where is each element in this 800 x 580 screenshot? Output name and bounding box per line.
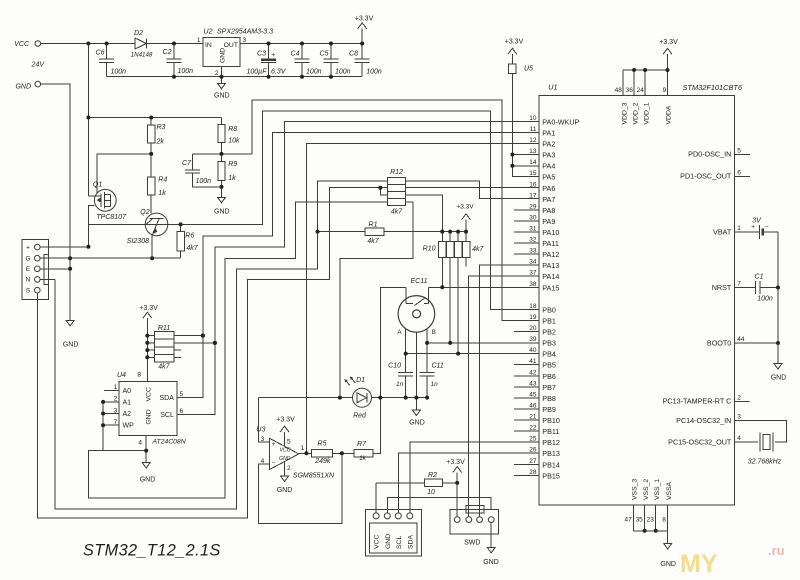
svg-text:AT24C08N: AT24C08N: [152, 438, 186, 445]
wire net PB1 bridge to R8/R9 divider: [252, 100, 539, 320]
svg-text:GND: GND: [279, 456, 291, 462]
svg-text:SPX2954AM3-3.3: SPX2954AM3-3.3: [217, 29, 273, 36]
svg-text:R3: R3: [157, 124, 166, 131]
svg-text:NRST: NRST: [712, 283, 732, 292]
svg-text:6: 6: [180, 408, 184, 415]
svg-text:PB1: PB1: [542, 317, 556, 326]
svg-text:U2: U2: [204, 29, 213, 36]
svg-text:PB11: PB11: [542, 427, 559, 436]
wire encoder common to GND: [415, 332, 417, 410]
+3.3V symbol R2: [456, 472, 458, 483]
svg-text:PA4: PA4: [542, 162, 555, 171]
svg-text:PB15: PB15: [542, 471, 560, 480]
svg-text:10: 10: [427, 489, 435, 496]
svg-text:N: N: [26, 277, 31, 284]
svg-text:VSS_2: VSS_2: [643, 479, 650, 500]
svg-text:PA2: PA2: [542, 140, 555, 149]
svg-text:19: 19: [529, 314, 537, 321]
svg-text:100n: 100n: [306, 68, 322, 75]
svg-text:SDA: SDA: [407, 535, 414, 549]
capacitor C10 1n: [398, 371, 413, 373]
R10 bottom leads: [441, 257, 443, 287]
svg-text:+3.3V: +3.3V: [276, 416, 295, 423]
svg-text:−: −: [272, 459, 276, 466]
svg-text:U4: U4: [117, 372, 126, 379]
R11 right leads: [174, 335, 203, 337]
svg-text:C5: C5: [320, 51, 329, 58]
wire U4 address tie to GND: [103, 402, 146, 451]
ferrite bead U5: [512, 54, 538, 177]
svg-text:4: 4: [138, 439, 142, 446]
svg-text:R10: R10: [423, 246, 436, 253]
resistor R4 1k: [148, 177, 155, 195]
svg-text:PB9: PB9: [542, 405, 556, 414]
svg-text:11: 11: [530, 126, 537, 133]
rotary encoder EC11: [398, 296, 435, 333]
wire R12 row4 right chain: [340, 202, 413, 398]
svg-text:48: 48: [615, 87, 623, 94]
capacitor C3 100uF 6.3V: [268, 44, 270, 59]
svg-text:5: 5: [287, 438, 291, 445]
svg-text:PB8: PB8: [542, 394, 556, 403]
SWD connector: [450, 510, 499, 535]
svg-text:.ru: .ru: [768, 543, 785, 558]
svg-text:38: 38: [529, 281, 537, 288]
svg-text:6.3V: 6.3V: [271, 68, 287, 75]
svg-text:GND: GND: [214, 209, 230, 216]
svg-text:R9: R9: [228, 161, 237, 168]
svg-text:PA10: PA10: [542, 228, 559, 237]
wire net PA7/sense N: pin17 through R12 row1 to handle N: [55, 181, 539, 509]
svg-text:100n: 100n: [757, 296, 773, 303]
encoder switch contacts: [405, 287, 407, 303]
MCU top pins VDD_3 VDD_2 VDD_1 VDDA: [622, 70, 624, 96]
svg-text:R2: R2: [428, 472, 437, 479]
svg-text:PA9: PA9: [542, 217, 555, 226]
wire VSS bus to GND: [634, 530, 668, 532]
wire G/emitter/R6 ground line: [40, 257, 181, 259]
svg-text:100n: 100n: [196, 178, 212, 185]
svg-text:100n: 100n: [178, 68, 194, 75]
svg-text:2: 2: [737, 394, 741, 401]
svg-text:GND: GND: [385, 534, 392, 549]
svg-text:2: 2: [215, 70, 219, 77]
svg-text:VCC: VCC: [146, 387, 153, 401]
svg-text:U3: U3: [256, 424, 265, 433]
svg-text:VSS_1: VSS_1: [654, 479, 661, 500]
wire net SDA: pin11 PA1 to R11/U4 SDA: [177, 133, 539, 398]
svg-text:R1: R1: [369, 222, 378, 229]
connector X1 handle: [22, 240, 49, 300]
svg-text:VDD_2: VDD_2: [632, 102, 639, 124]
svg-text:3: 3: [737, 414, 741, 421]
wire 3.3V output rail: [240, 43, 362, 45]
resistor network R12 4k7: [387, 177, 405, 205]
wire GND rail under caps: [107, 76, 363, 78]
svg-text:EC11: EC11: [411, 278, 428, 285]
SWD GND: [490, 523, 492, 535]
svg-text:47: 47: [624, 517, 632, 524]
svg-text:1k: 1k: [228, 175, 236, 182]
GND symbol handle ground: [66, 321, 74, 327]
svg-text:STM32F101CBT6: STM32F101CBT6: [683, 83, 743, 92]
wire net PB3 encoder B: [427, 342, 539, 344]
U4 address pin stubs: [104, 389, 119, 391]
svg-text:4k7: 4k7: [186, 245, 198, 252]
svg-text:C6: C6: [96, 50, 105, 57]
svg-text:STM32_T12_2.1S: STM32_T12_2.1S: [83, 542, 221, 560]
svg-text:30: 30: [529, 214, 537, 221]
battery BT1 3V: [735, 231, 760, 233]
svg-text:PD1-OSC_OUT: PD1-OSC_OUT: [680, 172, 732, 181]
svg-text:24: 24: [637, 87, 645, 94]
MCU bottom pins VSS_3 VSS_2 VSS_1 VSSA: [633, 505, 635, 531]
svg-text:23: 23: [647, 517, 655, 524]
svg-text:8: 8: [662, 517, 666, 524]
svg-text:GND: GND: [771, 374, 787, 381]
svg-text:39: 39: [529, 336, 537, 343]
svg-text:PA0-WKUP: PA0-WKUP: [542, 117, 579, 126]
svg-text:2k: 2k: [156, 138, 165, 145]
svg-text:B: B: [432, 329, 436, 336]
svg-text:22: 22: [529, 425, 537, 432]
op-amp U3 SGM8551XN: [270, 438, 299, 469]
svg-text:45: 45: [529, 391, 537, 398]
svg-text:A1: A1: [123, 399, 132, 406]
BOOT0 wire and GND: [735, 342, 779, 344]
wire Q1 gate from R3/R4: [97, 154, 151, 193]
pin 5 stub: [735, 153, 751, 155]
svg-text:+3.3V: +3.3V: [456, 204, 474, 211]
svg-text:D2: D2: [134, 30, 143, 37]
svg-text:100µF: 100µF: [247, 68, 268, 75]
svg-text:+: +: [272, 441, 276, 448]
resistor R5 249k: [312, 450, 333, 457]
svg-text:SDA: SDA: [159, 395, 174, 402]
svg-text:MY: MY: [680, 550, 718, 578]
svg-text:4: 4: [737, 435, 741, 442]
+3.3V symbol R10 rail: [465, 220, 467, 232]
svg-text:GND: GND: [220, 48, 227, 63]
+3.3V symbol R11: [146, 318, 148, 382]
diode D2 1N4148: [135, 38, 146, 49]
svg-text:7: 7: [737, 281, 741, 288]
wire switch left to gnd rail: [380, 287, 406, 397]
pin 6 stub: [735, 175, 751, 177]
svg-text:PA3: PA3: [542, 151, 555, 160]
svg-text:10: 10: [529, 115, 537, 122]
wire VDD bus: [623, 69, 667, 71]
capacitor C4 100n: [301, 44, 303, 60]
svg-text:GND: GND: [409, 420, 425, 427]
svg-text:R12: R12: [390, 169, 403, 176]
svg-text:9: 9: [663, 87, 667, 94]
+3.3V symbol top: [361, 29, 363, 44]
U3 pin2 GND: [284, 462, 286, 477]
svg-text:PB2: PB2: [542, 328, 556, 337]
svg-text:SGM8551XN: SGM8551XN: [293, 472, 335, 479]
OLED connector: [365, 509, 421, 556]
junction dots: [86, 116, 90, 120]
svg-text:32.768kHz: 32.768kHz: [748, 459, 782, 466]
resistor R7 1k: [354, 450, 373, 457]
wire + pin to VCC: [40, 246, 88, 248]
wire net SWDIO: pin34 PA13 to SWD: [480, 265, 539, 517]
svg-text:C8: C8: [349, 51, 358, 58]
svg-text:TPC8107: TPC8107: [96, 214, 127, 221]
svg-text:PD0-OSC_IN: PD0-OSC_IN: [688, 150, 731, 159]
svg-text:GND: GND: [277, 487, 293, 494]
pin 2 stub: [735, 400, 750, 402]
svg-text:PB7: PB7: [542, 383, 556, 392]
resistor R1 4k7: [318, 231, 365, 233]
svg-text:Q2: Q2: [140, 209, 149, 216]
wire VCC vertical feed: [87, 44, 89, 197]
svg-text:G: G: [25, 256, 30, 263]
crystal Y1 32.768kHz: [735, 421, 787, 443]
svg-text:PA12: PA12: [542, 250, 559, 259]
svg-text:6: 6: [737, 169, 741, 176]
svg-text:249k: 249k: [314, 458, 331, 465]
svg-text:U1: U1: [548, 82, 557, 91]
svg-text:4k7: 4k7: [472, 246, 484, 253]
wire net PB12 OLED SDA: [410, 442, 539, 513]
svg-text:R7: R7: [357, 441, 367, 448]
resistor R3 2k: [150, 118, 152, 126]
svg-text:1N4148: 1N4148: [131, 52, 153, 59]
svg-text:VCC: VCC: [374, 535, 381, 549]
wire OLED VCC riser: [375, 483, 377, 513]
U3 pin5 VCC: [284, 432, 286, 446]
capacitor C6 100n: [106, 44, 108, 60]
MCU U1 STM32F101CBT6 box: [539, 96, 735, 506]
svg-text:PB6: PB6: [542, 372, 556, 381]
svg-text:GND: GND: [214, 93, 230, 100]
svg-text:4k7: 4k7: [158, 364, 170, 371]
svg-text:SCL: SCL: [396, 536, 403, 549]
svg-text:R4: R4: [158, 176, 167, 183]
svg-text:33: 33: [529, 248, 537, 255]
regulator U2 SPX2954AM3-3.3: [203, 38, 240, 67]
svg-text:PC13-TAMPER-RT C: PC13-TAMPER-RT C: [663, 397, 732, 406]
capacitor C7 100n: [192, 154, 194, 170]
svg-text:GND: GND: [146, 409, 153, 424]
transistor Q1 TPC8107: [94, 189, 116, 211]
svg-text:PA1: PA1: [542, 129, 555, 138]
wire VCC rail: [41, 43, 135, 45]
svg-text:C4: C4: [291, 51, 300, 58]
wire E pin: [40, 268, 70, 270]
svg-text:+: +: [751, 224, 755, 231]
capacitor C8 100n: [361, 44, 363, 60]
svg-text:+3.3V: +3.3V: [355, 16, 374, 23]
svg-text:GND: GND: [63, 342, 79, 349]
svg-text:1: 1: [737, 225, 741, 232]
svg-text:C1: C1: [755, 274, 764, 281]
svg-text:SCL: SCL: [160, 412, 174, 419]
U3 pin3 input: [259, 398, 270, 443]
wire encoder A with C10: [405, 329, 407, 373]
svg-text:4k7: 4k7: [391, 208, 403, 215]
svg-text:24V: 24V: [31, 62, 46, 69]
svg-text:+3.3V: +3.3V: [446, 459, 465, 466]
svg-text:1: 1: [197, 37, 201, 44]
U3 pin4 input / feedback loop: [259, 453, 342, 523]
svg-text:37: 37: [529, 270, 537, 277]
svg-text:44: 44: [737, 336, 745, 343]
svg-text:PA13: PA13: [542, 261, 559, 270]
svg-text:VDD_1: VDD_1: [643, 102, 650, 124]
pin 13/14 stubs: [512, 154, 538, 156]
svg-text:4k7: 4k7: [367, 238, 379, 245]
svg-text:14: 14: [529, 159, 537, 166]
svg-text:GND: GND: [15, 83, 31, 90]
wire R3/R8 feed: [88, 117, 221, 119]
svg-text:PA5: PA5: [542, 173, 555, 182]
svg-text:31: 31: [529, 226, 537, 233]
svg-text:34: 34: [529, 259, 537, 266]
GND under R9: [221, 187, 223, 197]
svg-text:12: 12: [529, 137, 537, 144]
svg-text:2: 2: [287, 465, 291, 472]
svg-text:VCC: VCC: [280, 448, 291, 454]
U4 pin4 GND: [145, 436, 147, 463]
wire R2 node to SWD pin1: [456, 483, 458, 517]
svg-text:+: +: [271, 52, 275, 59]
resistor R8 10k: [221, 118, 223, 125]
wire R8/R9 junction to C7: [193, 153, 252, 155]
EEPROM U4 AT24C08N: [119, 382, 177, 436]
svg-text:PB4: PB4: [542, 350, 556, 359]
wire net PA15 encoder switch: [429, 286, 539, 288]
svg-text:R8: R8: [228, 126, 237, 133]
wire R12 row3 right to +3.3 rail: [406, 195, 443, 232]
resistor R6 4k7: [180, 224, 182, 231]
svg-text:27: 27: [529, 458, 537, 465]
svg-text:PB14: PB14: [542, 460, 560, 469]
svg-text:3: 3: [243, 37, 247, 44]
svg-text:42: 42: [529, 369, 537, 376]
svg-text:100n: 100n: [111, 69, 127, 76]
svg-text:PA11: PA11: [542, 239, 559, 248]
svg-text:PB3: PB3: [542, 339, 556, 348]
svg-text:A2: A2: [123, 411, 132, 418]
svg-text:36: 36: [626, 87, 634, 94]
resistor R9 1k: [218, 161, 225, 180]
svg-text:PB5: PB5: [542, 361, 556, 370]
svg-text:WP: WP: [123, 423, 135, 430]
resistor network R11 4k7: [155, 332, 174, 362]
wire battery/C1/BOOT0 vertical: [777, 232, 779, 343]
svg-text:IN: IN: [205, 42, 212, 49]
svg-text:28: 28: [529, 469, 537, 476]
svg-text:VSS_3: VSS_3: [632, 479, 639, 500]
svg-text:5: 5: [737, 147, 741, 154]
svg-text:43: 43: [529, 380, 537, 387]
svg-text:PB0: PB0: [542, 305, 556, 314]
U3 output pin1: [299, 452, 312, 454]
wire OLED GND to SWD GND: [387, 498, 491, 513]
svg-text:U5: U5: [524, 66, 533, 73]
svg-text:PA8: PA8: [542, 206, 555, 215]
wire net PB4 encoder A: [406, 353, 539, 355]
capacitor C5 100n: [330, 44, 332, 60]
svg-text:SI2308: SI2308: [127, 238, 149, 245]
LED D1 Red: [353, 388, 372, 407]
svg-text:PA7: PA7: [542, 195, 555, 204]
wire R12 row3 tie-step: [380, 188, 387, 195]
capacitor C2 100n: [173, 44, 175, 60]
svg-text:+: +: [26, 244, 30, 251]
svg-text:18: 18: [529, 303, 537, 310]
wire gnd/D1 rail: [259, 397, 353, 399]
svg-text:32: 32: [529, 237, 537, 244]
svg-text:100n: 100n: [366, 68, 382, 75]
svg-text:PB10: PB10: [542, 416, 560, 425]
svg-text:+3.3V: +3.3V: [659, 39, 678, 46]
svg-text:VCC: VCC: [14, 41, 30, 48]
svg-text:4: 4: [261, 458, 265, 465]
svg-text:C2: C2: [163, 49, 172, 56]
svg-text:C11: C11: [432, 362, 444, 369]
svg-text:PC15-OSC32_OUT: PC15-OSC32_OUT: [668, 437, 732, 446]
svg-text:PB12: PB12: [542, 438, 560, 447]
capacitor C1 100n: [735, 287, 756, 289]
wire net PB13 OLED SCL: [398, 453, 539, 513]
svg-text:E: E: [26, 266, 31, 273]
wire encoder B with C11: [426, 329, 428, 372]
svg-text:VDD_3: VDD_3: [621, 102, 628, 124]
svg-text:A0: A0: [123, 388, 132, 395]
svg-text:PA6: PA6: [542, 184, 555, 193]
wire GND input to G line: [41, 84, 71, 320]
svg-text:C7: C7: [182, 160, 192, 167]
wire net PB0 bridge to Q2 collector: [88, 111, 538, 310]
svg-text:21: 21: [529, 414, 537, 421]
svg-text:+3.3V: +3.3V: [505, 38, 524, 45]
U2 pin2 GND: [221, 67, 223, 84]
wire net SCL: pin10 PA0 to R11/U4 SCL: [177, 121, 539, 414]
svg-text:VDDA: VDDA: [666, 105, 673, 124]
wire net PA2 to op-amp output: [306, 144, 538, 454]
svg-text:S: S: [26, 288, 31, 295]
svg-text:D1: D1: [356, 377, 365, 384]
svg-text:1: 1: [301, 445, 305, 452]
svg-text:+3.3V: +3.3V: [139, 305, 158, 312]
svg-text:GND: GND: [140, 477, 156, 484]
svg-text:1n: 1n: [431, 381, 439, 388]
wire net SWCLK: pin37 PA14 to SWD: [468, 276, 538, 517]
svg-text:1k: 1k: [158, 190, 166, 197]
resistor R2 10: [376, 482, 425, 484]
svg-text:VBAT: VBAT: [713, 227, 732, 236]
svg-text:PA15: PA15: [542, 283, 559, 292]
resistor network R10 4k7: [441, 232, 443, 242]
svg-text:R6: R6: [185, 233, 194, 240]
svg-text:SWD: SWD: [464, 540, 480, 547]
+3.3V symbol VDD: [667, 54, 669, 70]
svg-text:GND: GND: [660, 561, 676, 568]
svg-text:C3: C3: [257, 51, 266, 58]
svg-text:BOOT0: BOOT0: [707, 338, 731, 347]
svg-text:1n: 1n: [396, 381, 404, 388]
svg-text:GND: GND: [483, 559, 499, 566]
svg-text:1k: 1k: [359, 455, 367, 462]
svg-text:VSSA: VSSA: [666, 481, 673, 500]
svg-text:3: 3: [261, 436, 265, 443]
wire net PA6/sense S: pin16 through R12 to handle S: [37, 188, 539, 519]
svg-text:20: 20: [529, 325, 537, 332]
